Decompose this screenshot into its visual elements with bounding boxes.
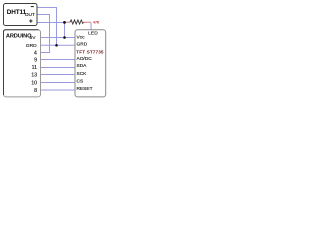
wire DHT11 minus horizontal — [37, 7, 57, 9]
junction dot on 5V wire — [63, 36, 66, 39]
svg-text:GRD: GRD — [77, 41, 88, 47]
svg-text:ARDUINO: ARDUINO — [6, 33, 32, 39]
wire DHT11 OUT horizontal — [37, 14, 50, 16]
resistor R1 zigzag body — [70, 20, 84, 24]
svg-text:TFT ST7735: TFT ST7735 — [76, 50, 104, 55]
wire DHT11 plus horizontal — [37, 22, 65, 24]
board ARDUINO box — [4, 30, 41, 97]
wire Arduino 10 to TFT CS — [41, 82, 76, 84]
svg-text:OUT: OUT — [25, 12, 35, 18]
svg-text:SCK: SCK — [77, 71, 88, 77]
ARDUINO box top-left corner dark — [4, 30, 6, 32]
wire Arduino 5V to TFT Vcc — [41, 37, 76, 39]
svg-text:5V: 5V — [30, 35, 37, 41]
svg-text:10: 10 — [31, 80, 37, 86]
svg-text:GRD: GRD — [26, 43, 37, 49]
svg-text:SDA: SDA — [77, 63, 88, 69]
wire resistor output down to TFT LED pin — [90, 23, 92, 31]
wire Arduino 11 to TFT SDA — [41, 67, 76, 69]
svg-text:RESET: RESET — [77, 86, 93, 92]
ARDUINO box top edge dark — [6, 29, 39, 31]
ARDUINO box left edge dark — [3, 32, 5, 96]
resistor R1 lead left (red) — [66, 21, 70, 23]
svg-text:8: 8 — [34, 88, 37, 94]
svg-text:CS: CS — [77, 78, 84, 84]
svg-text:LED: LED — [88, 31, 98, 37]
svg-text:9: 9 — [34, 57, 37, 63]
svg-text:47K: 47K — [93, 20, 100, 24]
sensor DHT11 box — [4, 4, 38, 26]
svg-text:DHT11: DHT11 — [7, 9, 27, 16]
wire Arduino 13 to TFT SCK — [41, 74, 76, 76]
wire Arduino 8 to TFT RESET — [41, 89, 76, 91]
wire Arduino GRD to TFT GRD — [41, 44, 76, 46]
svg-text:AO/DC: AO/DC — [77, 56, 93, 62]
junction dot on GRD wire — [55, 44, 58, 47]
junction dot plus/5V net top — [63, 21, 66, 24]
svg-text:4: 4 — [34, 50, 37, 56]
wire Arduino pin 4 stub — [41, 52, 51, 54]
display TFT ST7735 box — [75, 30, 106, 97]
svg-text:11: 11 — [32, 65, 38, 71]
wire DHT11 OUT vertical down to pin 4 — [49, 15, 51, 53]
DHT11 pin minus symbol — [31, 6, 34, 7]
wire Arduino 9 to TFT AO/DC — [41, 59, 76, 61]
wire plus junction down to 5V net — [64, 23, 66, 38]
svg-text:13: 13 — [31, 72, 37, 78]
wire DHT11 minus vertical down to GRD net — [56, 8, 58, 46]
resistor R1 lead right (red) — [84, 21, 91, 23]
DHT11 pin plus symbol — [29, 19, 32, 22]
svg-text:Vcc: Vcc — [77, 35, 86, 41]
